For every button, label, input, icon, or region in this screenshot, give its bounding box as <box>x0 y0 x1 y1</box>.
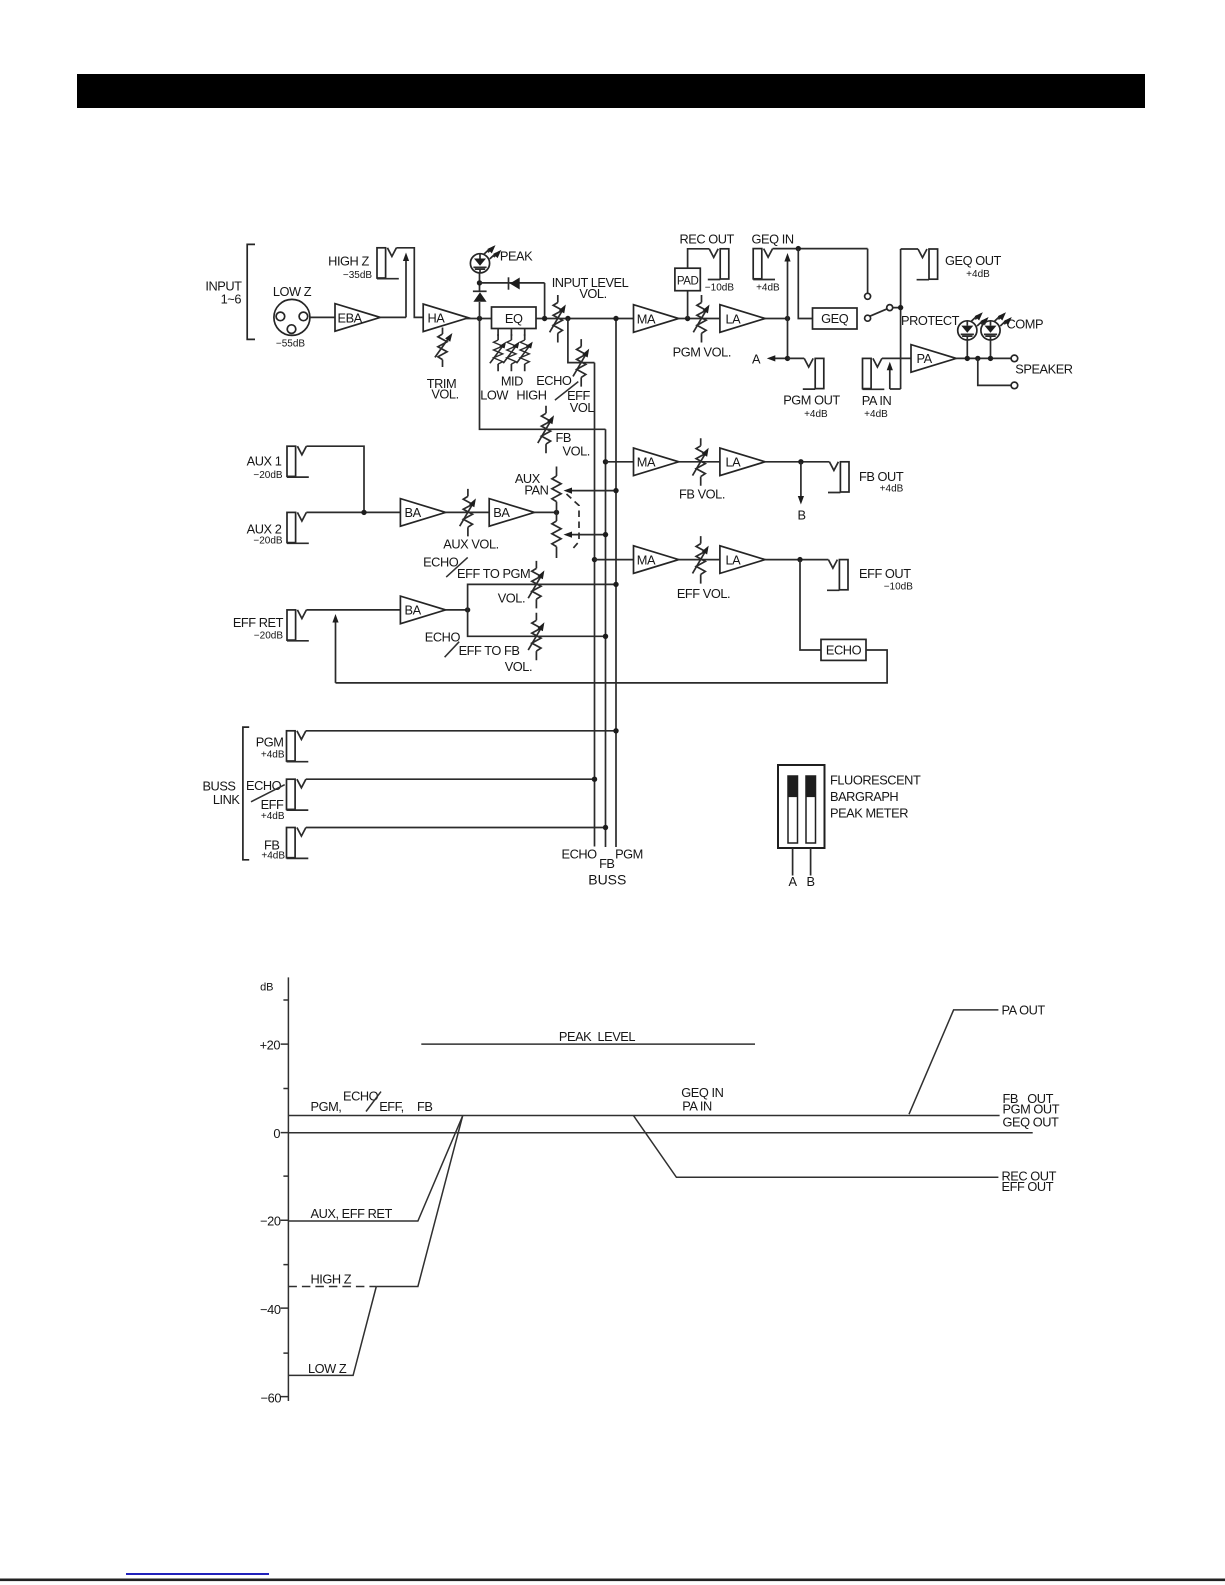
input bracket INPUT 1~6 <box>247 244 255 339</box>
svg-text:VOL.: VOL. <box>563 444 590 459</box>
potentiometer ECHO/EFF TO PGM VOL <box>528 561 547 609</box>
potentiometer LOW <box>497 329 499 336</box>
svg-text:B: B <box>806 874 814 889</box>
svg-text:BA: BA <box>405 505 422 520</box>
svg-text:FB VOL.: FB VOL. <box>679 487 725 502</box>
chart axis <box>287 977 289 1401</box>
wire echo return loop <box>336 619 888 683</box>
diode D1 to PEAK LED <box>473 290 487 292</box>
node EFF output <box>797 557 802 562</box>
svg-text:AUX 1: AUX 1 <box>247 454 282 469</box>
svg-text:FB OUT: FB OUT <box>859 469 904 484</box>
jack GEQ OUT <box>901 248 918 250</box>
potentiometer INPUT LEVEL VOL <box>550 295 569 343</box>
svg-text:+20: +20 <box>260 1038 281 1053</box>
wire B meter feed arrow <box>800 462 802 499</box>
chart 0dB line <box>288 1132 1032 1134</box>
svg-text:VOL.: VOL. <box>431 387 458 402</box>
svg-text:−20dB: −20dB <box>254 631 284 642</box>
svg-text:GEQ IN: GEQ IN <box>752 231 794 246</box>
svg-text:SPEAKER: SPEAKER <box>1015 362 1073 377</box>
chart internal +4 level line <box>288 1115 999 1117</box>
potentiometer HIGH <box>524 329 526 336</box>
svg-text:0: 0 <box>273 1126 280 1141</box>
jack GEQ IN <box>753 249 775 280</box>
attenuator PAD <box>675 268 700 291</box>
meter FLUORESCENT BARGRAPH PEAK METER <box>778 765 825 848</box>
op-amp MA (FB) <box>634 448 679 476</box>
svg-text:+4dB: +4dB <box>756 283 780 294</box>
svg-text:PEAK METER: PEAK METER <box>830 806 908 821</box>
op-amp MA (EFF) <box>634 546 679 574</box>
svg-text:EFF VOL.: EFF VOL. <box>677 586 730 601</box>
wire XLR to EBA <box>310 316 335 318</box>
op-amp MA (PGM) <box>634 305 679 333</box>
wire to PAD <box>687 291 689 319</box>
jack AUX 2 <box>287 512 309 543</box>
wire FB link to buss <box>306 827 606 829</box>
svg-text:MA: MA <box>637 552 656 567</box>
svg-text:PGM,: PGM, <box>311 1099 342 1114</box>
svg-text:−40: −40 <box>260 1302 281 1317</box>
svg-text:−20: −20 <box>260 1214 281 1229</box>
node MA output <box>685 316 690 321</box>
wire PAD to REC OUT jack <box>688 249 710 268</box>
svg-text:HIGH Z: HIGH Z <box>328 254 369 269</box>
svg-text:A: A <box>788 874 797 889</box>
svg-text:ECHO: ECHO <box>826 643 862 658</box>
node peak rail junction <box>477 280 482 285</box>
wire up-arrow into HIGH Z jack contact <box>405 257 407 317</box>
svg-text:GEQ OUT: GEQ OUT <box>1003 1114 1059 1129</box>
svg-text:+4dB: +4dB <box>261 749 285 760</box>
node eff ret split <box>465 607 470 612</box>
svg-text:ECHO: ECHO <box>562 846 598 861</box>
svg-text:LA: LA <box>726 552 742 567</box>
wire PGM link to buss <box>306 730 616 732</box>
svg-text:FB: FB <box>417 1099 432 1114</box>
chart minor ticks <box>283 1000 288 1353</box>
svg-text:−10dB: −10dB <box>884 582 914 593</box>
wire LA output <box>765 318 787 320</box>
jack AUX 1 <box>287 446 309 477</box>
svg-text:PGM OUT: PGM OUT <box>783 393 840 408</box>
jack PGM buss link <box>287 731 309 762</box>
node PGM buss tap <box>613 316 618 321</box>
wire EBA output <box>381 316 407 318</box>
svg-text:HA: HA <box>428 311 446 326</box>
svg-text:−10dB: −10dB <box>705 283 735 294</box>
potentiometer TRIM VOL <box>435 328 455 368</box>
wire BA3 output <box>445 609 467 611</box>
svg-text:PROTECT: PROTECT <box>901 313 960 328</box>
potentiometer EFF VOL (master) <box>693 536 712 584</box>
LED PEAK <box>470 243 503 273</box>
node AUX sum <box>361 510 366 515</box>
chart PEAK LEVEL line <box>421 1043 755 1045</box>
node EQ output <box>542 316 547 321</box>
wire GEQ IN line <box>773 248 868 250</box>
svg-text:GEQ: GEQ <box>821 311 849 326</box>
black header bar <box>77 74 1145 108</box>
buss link bracket <box>243 727 249 860</box>
svg-text:BA: BA <box>405 603 422 618</box>
wire HA output main line to MA input <box>466 318 633 320</box>
svg-text:LOW Z: LOW Z <box>308 1361 347 1376</box>
svg-text:MA: MA <box>637 311 656 326</box>
svg-text:EFF,: EFF, <box>379 1099 404 1114</box>
svg-text:EBA: EBA <box>338 310 363 325</box>
buffer BA (aux input) <box>400 499 445 527</box>
wire MA to LA row3 <box>678 559 720 561</box>
wire BA2 output <box>534 511 556 513</box>
svg-text:FLUORESCENT: FLUORESCENT <box>830 772 921 787</box>
svg-text:PA IN: PA IN <box>682 1098 712 1113</box>
svg-text:AUX 2: AUX 2 <box>247 522 282 537</box>
wire to ECHO unit <box>800 560 821 650</box>
svg-text:EFF RET: EFF RET <box>233 615 284 630</box>
gang link dashed <box>567 494 580 549</box>
svg-text:−20dB: −20dB <box>253 536 283 547</box>
wire AUX2 line <box>306 511 400 513</box>
wire ECHO buss <box>594 363 596 847</box>
svg-text:REC OUT: REC OUT <box>679 231 734 246</box>
wire FB send branch <box>480 319 606 430</box>
jack PA IN with normalled arrow <box>863 358 885 389</box>
svg-text:EFF OUT: EFF OUT <box>1002 1179 1054 1194</box>
wire up-arrow into GEQ IN jack contact <box>787 258 789 319</box>
chart AUX EFF RET trace <box>288 1116 462 1221</box>
svg-text:VOL.: VOL. <box>498 590 525 605</box>
svg-text:−35dB: −35dB <box>343 270 373 281</box>
potentiometer MID <box>510 329 512 336</box>
svg-text:LOW Z: LOW Z <box>273 284 312 299</box>
svg-text:dB: dB <box>260 982 273 994</box>
jack EFF OUT <box>827 560 848 591</box>
svg-text:VOL.: VOL. <box>505 659 532 674</box>
svg-text:LINK: LINK <box>213 792 241 807</box>
potentiometer AUX VOL <box>460 489 479 537</box>
wire LA output to FB OUT <box>765 461 829 463</box>
svg-text:BARGRAPH: BARGRAPH <box>830 789 898 804</box>
wire BA to BA <box>445 511 489 513</box>
wire PGM buss <box>615 319 617 848</box>
svg-text:LA: LA <box>726 311 742 326</box>
potentiometer AUX PAN (dual) <box>552 467 561 559</box>
effect ECHO unit <box>821 639 866 660</box>
svg-text:EFF: EFF <box>261 797 284 812</box>
node FB buss tap row2 <box>603 459 608 464</box>
jack PGM OUT <box>803 358 824 389</box>
footer blue link line <box>126 1573 269 1575</box>
svg-text:EFF TO FB: EFF TO FB <box>459 643 520 658</box>
diode D2 from EQ output <box>508 277 510 289</box>
svg-text:LOW: LOW <box>480 388 509 403</box>
wire HIGH Z jack to HA input <box>396 248 423 318</box>
switch GEQ in/out <box>868 249 901 317</box>
buffer BA (eff ret) <box>400 596 445 624</box>
wire pan wiper to PGM buss <box>568 490 616 492</box>
EQ block <box>492 307 537 329</box>
wire ECHO link to buss <box>306 778 595 780</box>
jack FB buss link <box>287 828 309 859</box>
svg-text:B: B <box>797 508 805 523</box>
svg-text:EFF TO PGM: EFF TO PGM <box>457 566 530 581</box>
svg-text:PAN: PAN <box>524 483 548 498</box>
chart HIGH Z trace <box>288 1286 376 1288</box>
svg-text:COMP: COMP <box>1007 316 1044 331</box>
buffer BA (aux out) <box>489 499 534 527</box>
chart major ticks <box>281 1044 289 1397</box>
wire MA to LA row2 <box>678 461 720 463</box>
wire FB buss to MA <box>606 461 634 463</box>
svg-text:EQ: EQ <box>505 311 523 326</box>
potentiometer FB VOL (master) <box>693 438 712 486</box>
op-amp EBA <box>335 304 380 332</box>
svg-text:VOL.: VOL. <box>579 286 606 301</box>
svg-text:+4dB: +4dB <box>864 409 888 420</box>
svg-text:LA: LA <box>726 455 742 470</box>
XLR connector LOW Z input <box>274 299 310 335</box>
potentiometer ECHO/EFF TO FB VOL <box>528 613 547 661</box>
svg-text:−60: −60 <box>261 1390 282 1405</box>
svg-text:1~6: 1~6 <box>221 292 242 307</box>
op-amp LA (FB) <box>720 448 765 476</box>
svg-text:AUX VOL.: AUX VOL. <box>443 537 498 552</box>
svg-text:HIGH: HIGH <box>516 388 546 403</box>
svg-text:HIGH Z: HIGH Z <box>311 1272 352 1287</box>
jack EFF RET <box>287 610 309 641</box>
svg-text:MA: MA <box>637 455 656 470</box>
potentiometer EFF VOL (echo send) <box>573 339 592 387</box>
wire peak rail from EQ output <box>480 283 545 319</box>
wire MA to LA <box>678 318 720 320</box>
svg-text:+4dB: +4dB <box>261 851 285 862</box>
svg-text:PGM: PGM <box>615 846 643 861</box>
node GEQ feed <box>796 246 801 251</box>
wire AUX1 to sum node <box>306 446 364 512</box>
footer rule <box>0 1579 1225 1582</box>
node HA output <box>477 316 482 321</box>
svg-text:PEAK LEVEL: PEAK LEVEL <box>559 1029 635 1044</box>
wire echo to PGM line <box>468 584 616 610</box>
node LA output <box>785 316 790 321</box>
op-amp LA (PGM) <box>720 305 765 333</box>
svg-text:−55dB: −55dB <box>276 339 306 350</box>
wire ECHO buss to MA <box>595 559 634 561</box>
svg-text:ECHO: ECHO <box>246 778 282 793</box>
svg-text:GEQ OUT: GEQ OUT <box>945 253 1001 268</box>
wire PGM OUT branch with A feed <box>771 319 788 359</box>
wire pan wiper to FB buss <box>568 534 606 536</box>
jack FB OUT <box>828 462 849 493</box>
svg-text:ECHO: ECHO <box>423 555 459 570</box>
wire peak-detector rail <box>479 273 481 319</box>
speaker terminals <box>1011 355 1018 362</box>
potentiometer PGM VOL <box>693 295 712 343</box>
jack REC OUT <box>708 249 729 280</box>
svg-text:PGM VOL.: PGM VOL. <box>673 345 731 360</box>
chart PA OUT rise trace <box>909 1010 998 1114</box>
node FB output <box>798 459 803 464</box>
jack ECHO/EFF buss link <box>287 779 309 810</box>
svg-text:+4dB: +4dB <box>966 269 990 280</box>
svg-text:PGM: PGM <box>256 735 284 750</box>
svg-text:PAD: PAD <box>677 275 699 287</box>
wire EFF RET to BA <box>306 609 400 611</box>
LED PROTECT <box>958 310 991 340</box>
svg-text:VOL: VOL <box>570 400 595 415</box>
equalizer GEQ <box>813 308 858 329</box>
meter leads A B <box>793 848 811 876</box>
chart LOW Z trace <box>288 1287 376 1376</box>
chart GEQ/PA IN dip trace <box>634 1116 999 1178</box>
svg-text:PEAK: PEAK <box>500 249 533 264</box>
svg-text:PA IN: PA IN <box>862 393 892 408</box>
LED COMP <box>981 310 1014 340</box>
svg-text:MID: MID <box>501 373 523 388</box>
svg-text:EFF OUT: EFF OUT <box>859 566 911 581</box>
op-amp HA <box>423 304 468 332</box>
wire GEQ OUT trunk <box>900 249 902 389</box>
wire to GEQ box <box>798 249 812 319</box>
jack HIGH Z <box>377 248 399 279</box>
svg-text:+4dB: +4dB <box>261 811 285 822</box>
svg-text:BA: BA <box>493 505 510 520</box>
svg-text:−20dB: −20dB <box>253 470 283 481</box>
wire echo to FB line <box>468 610 606 636</box>
svg-text:ECHO: ECHO <box>536 373 572 388</box>
node after input level <box>565 316 570 321</box>
svg-text:FB: FB <box>599 856 614 871</box>
wire LA output to EFF OUT <box>765 559 828 561</box>
svg-text:A: A <box>752 352 761 367</box>
power-amp PA <box>911 345 956 373</box>
wire echo send branch <box>568 319 595 363</box>
svg-text:AUX, EFF RET: AUX, EFF RET <box>311 1206 393 1221</box>
svg-text:BUSS: BUSS <box>588 872 626 888</box>
potentiometer FB VOL (fb send) <box>538 406 557 454</box>
svg-text:+4dB: +4dB <box>804 409 828 420</box>
svg-text:PA: PA <box>917 351 933 366</box>
wire PA output to speaker <box>956 357 1011 359</box>
svg-text:PA OUT: PA OUT <box>1002 1002 1046 1017</box>
svg-text:ECHO: ECHO <box>425 630 461 645</box>
op-amp LA (EFF) <box>720 546 765 574</box>
node PA output junctions <box>965 356 970 361</box>
node AUX pan center <box>554 510 559 515</box>
node ECHO buss tap row3 <box>592 557 597 562</box>
wire FB buss <box>605 429 607 847</box>
svg-text:+4dB: +4dB <box>880 484 904 495</box>
